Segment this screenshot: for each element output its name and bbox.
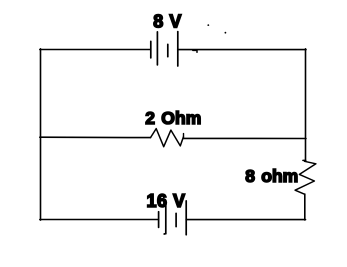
wire: top rail, left of 8V battery bbox=[40, 49, 151, 51]
svg-text:16 V: 16 V bbox=[147, 191, 186, 211]
resistor (8 ohm), vertical zigzag bbox=[295, 160, 316, 194]
svg-text:8 V: 8 V bbox=[153, 12, 181, 32]
wire: left vertical branch bbox=[40, 49, 42, 220]
battery (8 V), two-cell symbol bbox=[151, 32, 178, 66]
pen tick at right end of 2 Ohm resistor bbox=[183, 134, 185, 139]
battery (16 V), two-cell symbol bbox=[159, 201, 187, 235]
stray pen tick below top rail bbox=[193, 50, 197, 52]
wire: right vertical branch, bottom section bbox=[304, 194, 306, 220]
wire: right vertical branch, top section bbox=[305, 49, 307, 161]
svg-text:8 ohm: 8 ohm bbox=[245, 166, 298, 186]
stray pen dot A bbox=[207, 24, 209, 26]
serif foot of digit 1 in 16 V label bbox=[147, 205, 154, 207]
wire: top rail, right of 8V battery bbox=[178, 49, 306, 51]
wire: middle rail, right of 2 Ohm resistor bbox=[184, 137, 306, 139]
stray pen dot B bbox=[225, 32, 227, 34]
svg-text:2 Ohm: 2 Ohm bbox=[145, 108, 201, 128]
resistor (2 Ohm), zigzag bbox=[151, 129, 184, 147]
wire: bottom rail, right of 16V battery bbox=[186, 219, 305, 221]
wire: bottom rail, left of 16V battery bbox=[40, 219, 159, 221]
wire: middle rail, left of 2 Ohm resistor bbox=[40, 136, 151, 138]
